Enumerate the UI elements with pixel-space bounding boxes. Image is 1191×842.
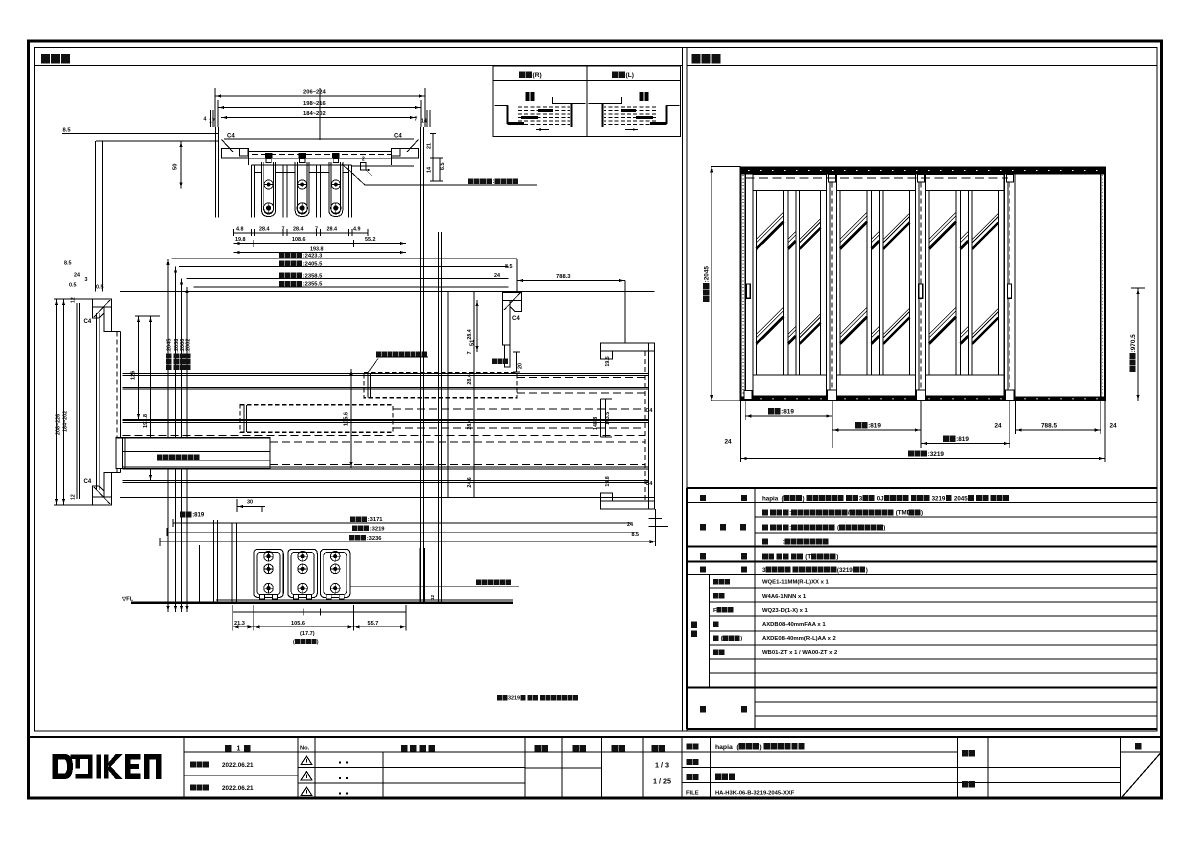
svg-text::2002: :2002 xyxy=(186,339,192,353)
svg-text:206~224: 206~224 xyxy=(303,90,327,96)
svg-text::: : xyxy=(783,539,785,546)
svg-text:19.5: 19.5 xyxy=(605,356,611,366)
svg-text:7: 7 xyxy=(467,396,473,399)
svg-text:21: 21 xyxy=(427,143,433,149)
svg-text:7: 7 xyxy=(282,227,285,233)
svg-text::3219: :3219 xyxy=(928,451,945,458)
svg-text:1 / 25: 1 / 25 xyxy=(653,777,671,786)
svg-text:▽FL: ▽FL xyxy=(121,597,134,603)
svg-text:3: 3 xyxy=(859,495,863,502)
svg-text:55.7: 55.7 xyxy=(368,621,379,627)
svg-text:3219: 3219 xyxy=(932,495,946,502)
svg-text:WB01-ZT x 1 / WA00-ZT x 2: WB01-ZT x 1 / WA00-ZT x 2 xyxy=(762,650,838,656)
svg-text:28.4: 28.4 xyxy=(293,227,304,233)
svg-text:30: 30 xyxy=(247,500,253,506)
svg-text:24: 24 xyxy=(725,439,733,446)
svg-text:17: 17 xyxy=(209,119,215,125)
svg-text:AXDB08-40mmFAA x 1: AXDB08-40mmFAA x 1 xyxy=(762,622,826,628)
svg-text:0.5: 0.5 xyxy=(69,283,77,289)
svg-text:): ) xyxy=(803,495,805,502)
svg-text:28.4: 28.4 xyxy=(467,374,473,384)
svg-text:50: 50 xyxy=(173,164,179,170)
svg-text::3219: :3219 xyxy=(370,526,386,532)
svg-text:(T: (T xyxy=(805,554,811,561)
svg-text:24: 24 xyxy=(494,273,500,279)
svg-text::2045: :2045 xyxy=(704,266,711,283)
svg-text:hapia: hapia xyxy=(715,744,733,751)
svg-text:AXDE08-40mm(R-L)AA x 2: AXDE08-40mm(R-L)AA x 2 xyxy=(762,636,836,642)
svg-text:28.4: 28.4 xyxy=(259,227,270,233)
svg-text:8.5: 8.5 xyxy=(64,261,72,267)
svg-text:3219: 3219 xyxy=(508,696,520,702)
svg-text:): ) xyxy=(740,636,742,642)
svg-text::2355.5: :2355.5 xyxy=(303,282,323,288)
svg-text:7: 7 xyxy=(415,117,418,123)
svg-text:105.6: 105.6 xyxy=(344,412,350,426)
svg-text:W4A6-1NNN x 1: W4A6-1NNN x 1 xyxy=(762,594,807,600)
svg-text:19.8: 19.8 xyxy=(605,476,611,486)
svg-text::2423.3: :2423.3 xyxy=(303,253,323,259)
svg-text::970.5: :970.5 xyxy=(1130,334,1137,353)
svg-text:): ) xyxy=(317,639,319,645)
svg-text::2405.5: :2405.5 xyxy=(303,261,323,267)
svg-text:1 / 3: 1 / 3 xyxy=(655,761,669,770)
svg-text:4: 4 xyxy=(204,117,207,123)
svg-text::819: :819 xyxy=(781,409,794,416)
svg-text:24.6: 24.6 xyxy=(467,477,473,487)
svg-text:55.2: 55.2 xyxy=(365,237,376,243)
svg-text:2045: 2045 xyxy=(954,495,968,502)
svg-text:3: 3 xyxy=(762,567,766,574)
svg-text:C4: C4 xyxy=(227,134,235,140)
svg-text:20: 20 xyxy=(518,363,524,369)
svg-text:C4: C4 xyxy=(84,479,92,485)
svg-text:148.8: 148.8 xyxy=(593,417,599,430)
svg-text:7: 7 xyxy=(467,351,473,354)
svg-text::819: :819 xyxy=(956,436,969,443)
svg-text::: : xyxy=(789,510,791,517)
svg-text:HA-H3K-06-B-3219-2045-XXF: HA-H3K-06-B-3219-2045-XXF xyxy=(715,790,795,796)
svg-text:(17.7): (17.7) xyxy=(300,631,315,637)
svg-text:184~202: 184~202 xyxy=(63,411,69,432)
svg-text:6.5: 6.5 xyxy=(440,163,446,171)
svg-text:FILE: FILE xyxy=(686,790,699,796)
svg-text:7: 7 xyxy=(315,227,318,233)
svg-text::819: :819 xyxy=(868,423,881,430)
svg-text:21.3: 21.3 xyxy=(234,621,245,627)
svg-text:51: 51 xyxy=(470,340,476,346)
svg-text:14: 14 xyxy=(421,119,427,125)
svg-text:2: 2 xyxy=(362,157,365,163)
svg-text:(R): (R) xyxy=(533,72,542,79)
svg-text:788.3: 788.3 xyxy=(556,274,571,280)
svg-text:WQ23-D(1-X) x 1: WQ23-D(1-X) x 1 xyxy=(762,608,809,614)
svg-text:WQE1-11MM(R-L)XX x 1: WQE1-11MM(R-L)XX x 1 xyxy=(762,580,829,586)
svg-text:103.5: 103.5 xyxy=(605,412,611,425)
svg-text:4.9: 4.9 xyxy=(353,227,361,233)
svg-text:12: 12 xyxy=(71,494,77,500)
svg-text:198~216: 198~216 xyxy=(303,101,327,107)
svg-text:(: ( xyxy=(721,636,723,642)
svg-text:0J: 0J xyxy=(877,495,884,502)
svg-text:4.8: 4.8 xyxy=(236,227,244,233)
svg-text:12: 12 xyxy=(71,297,77,303)
svg-text::: : xyxy=(493,179,495,185)
svg-text:hapia: hapia xyxy=(762,495,779,502)
svg-text::3171: :3171 xyxy=(368,517,384,523)
svg-text:): ) xyxy=(759,744,761,751)
svg-text::3236: :3236 xyxy=(367,536,383,542)
svg-text:28.4: 28.4 xyxy=(467,329,473,339)
svg-text:193.8: 193.8 xyxy=(310,247,324,253)
svg-text:C4: C4 xyxy=(646,481,653,487)
svg-text:0.5: 0.5 xyxy=(96,285,104,291)
svg-text::: : xyxy=(789,525,791,532)
svg-text:208~226: 208~226 xyxy=(56,414,62,435)
svg-text:(L): (L) xyxy=(626,72,634,79)
svg-text:): ) xyxy=(866,567,868,574)
svg-text:): ) xyxy=(921,510,923,517)
svg-text:19.8: 19.8 xyxy=(235,237,246,243)
svg-text:14: 14 xyxy=(427,167,433,173)
svg-text:(3219: (3219 xyxy=(837,567,853,574)
svg-text:184~202: 184~202 xyxy=(303,111,326,117)
svg-text:24: 24 xyxy=(1110,423,1118,430)
svg-text:/: / xyxy=(848,510,850,517)
svg-text:3: 3 xyxy=(85,277,88,283)
svg-text:193.8: 193.8 xyxy=(143,414,149,428)
svg-text:): ) xyxy=(836,554,838,561)
svg-text:C4: C4 xyxy=(394,134,402,140)
svg-text:8.5: 8.5 xyxy=(63,128,72,134)
svg-text::819: :819 xyxy=(192,513,205,519)
svg-text:28.4: 28.4 xyxy=(467,419,473,429)
svg-text:C4: C4 xyxy=(646,408,653,414)
svg-text:28.4: 28.4 xyxy=(327,227,338,233)
svg-text:788.5: 788.5 xyxy=(1041,423,1057,430)
svg-text:8.5: 8.5 xyxy=(632,532,640,538)
svg-text:No.: No. xyxy=(300,746,310,752)
svg-text:105.6: 105.6 xyxy=(291,621,305,627)
svg-text:C4: C4 xyxy=(84,319,92,325)
svg-text::2358.5: :2358.5 xyxy=(303,273,323,279)
svg-text:(: ( xyxy=(293,639,295,645)
svg-text:2022.06.21: 2022.06.21 xyxy=(222,762,254,769)
svg-text::2045: :2045 xyxy=(167,339,173,353)
svg-text:24: 24 xyxy=(74,273,80,279)
svg-text:8.5: 8.5 xyxy=(505,264,513,270)
svg-text:108.6: 108.6 xyxy=(292,237,306,243)
svg-text:C4: C4 xyxy=(512,316,520,322)
svg-text:24: 24 xyxy=(995,423,1003,430)
svg-text:): ) xyxy=(883,525,885,532)
svg-text:12: 12 xyxy=(430,594,435,600)
svg-text:2022.06.21: 2022.06.21 xyxy=(222,785,254,792)
svg-text:1: 1 xyxy=(237,746,241,753)
